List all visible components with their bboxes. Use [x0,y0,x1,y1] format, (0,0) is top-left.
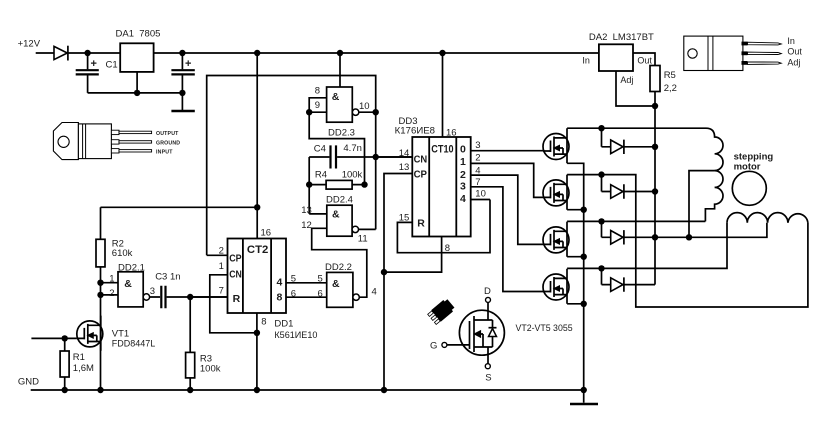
svg-text:DA2 LM317BT: DA2 LM317BT [589,32,654,43]
wire +5V rail from DA1 output to DA2 input [154,52,599,54]
svg-text:4: 4 [277,276,283,288]
svg-text:4.7n: 4.7n [343,143,362,154]
wire DD1 out8 to DD2.2 pin 6 [286,296,327,298]
svg-text:DD2.4: DD2.4 [326,194,353,205]
wire winding 2 center tap to +V bus [655,223,767,238]
wire M3 drain to winding 1 bottom [567,220,705,222]
svg-text:R: R [233,293,241,305]
wire DD1 pin 8 to ground rail [256,313,258,390]
svg-text:2: 2 [475,153,480,164]
svg-text:2,2: 2,2 [664,83,677,94]
wire DD1 R stub [190,296,227,298]
wire DD2.3 output to oscillator node [359,112,376,229]
inverter bubble DD2.2 output [353,294,359,300]
svg-text:&: & [332,278,340,290]
ground symbol at source bus [583,390,585,403]
wire DD3 R to out4 feedback [397,200,490,253]
svg-text:8: 8 [261,316,266,327]
wire DD2.1 pin 1 stub [101,282,119,284]
motor winding 2 [727,213,808,223]
svg-text:R5: R5 [664,70,676,81]
ground symbol at C2 [171,93,194,111]
wire C4 left to R4 left [308,157,310,214]
resistor R1 [60,338,69,390]
transistor VT1 [77,316,103,351]
svg-text:12: 12 [301,220,312,231]
diode VD2 flyback row 1 [602,128,656,154]
DPAK package icon [427,298,456,325]
transistor VT4 driver M3 [543,222,569,257]
wire ground bus C1 to C2 [88,92,183,94]
wire DD1 CN stub to ground [210,275,257,333]
wire source bus M1-M4 to ground [567,163,584,390]
svg-text:13: 13 [301,205,312,216]
svg-text:8: 8 [445,243,450,254]
svg-text:GND: GND [18,377,39,388]
svg-text:&: & [124,278,132,290]
wire DD1 out4 to DD2.2 pin 5 [286,282,327,284]
svg-text:0: 0 [460,144,466,156]
wire DD2.1 pin 2 stub [101,294,119,296]
svg-text:motor: motor [734,161,761,172]
wire winding 1 center tap [689,171,715,238]
wire DD3 CP to ground rail [384,174,412,391]
svg-text:8: 8 [277,291,283,303]
svg-text:CP: CP [414,169,427,181]
svg-text:4: 4 [460,193,466,205]
svg-text:S: S [485,372,491,383]
svg-text:C3 1n: C3 1n [155,272,180,283]
svg-text:К561ИЕ10: К561ИЕ10 [274,330,317,341]
svg-text:OUTPUT: OUTPUT [156,131,179,137]
wire riser rail to DD3 pin 16 [442,53,444,137]
svg-text:13: 13 [399,162,410,173]
svg-text:610k: 610k [112,248,133,259]
logic gate DD2.4 box [327,205,352,236]
diode VD3 flyback row 2 [602,175,656,199]
svg-text:In: In [787,36,795,46]
svg-text:GROUND: GROUND [156,140,180,146]
svg-text:4: 4 [372,287,377,298]
wire riser rail to R2 node and DD1 pin 16 [256,53,258,239]
TO-220 package drawing for DA2 LM317 [684,36,782,70]
wire DD3 CN stub from oscillator node [376,156,413,158]
svg-text:10: 10 [359,101,370,112]
svg-text:8: 8 [315,86,320,97]
resistor R4 [309,180,364,189]
svg-text:&: & [332,91,340,103]
wire DA2 Adj pin to node [616,71,655,106]
svg-text:Adj: Adj [787,57,800,67]
svg-text:C1: C1 [106,60,118,71]
svg-text:1: 1 [460,156,466,168]
wire oscillator feedback top run (DD2.3 out to DD1 CP) [207,76,376,256]
logic gate DD2.1 box [118,272,143,307]
motor winding 1 lower half [705,171,723,222]
svg-text:DA1 7805: DA1 7805 [116,29,161,40]
resistor R2 [96,207,257,390]
logic gate DD2.3 box [327,87,353,122]
svg-text:VT2-VT5 3055: VT2-VT5 3055 [516,323,573,334]
wire DD3 out1 to M2 gate [471,163,543,197]
transistor VT3 driver M2 [543,175,569,210]
wire VT1 gate lead [31,337,76,339]
svg-text:CT2: CT2 [247,244,268,256]
TO-220 package drawing for DA1 [53,123,151,160]
wire M1 drain to winding 1 top [567,127,706,129]
wire diode to C1 node [68,52,88,54]
svg-text:R: R [417,217,425,229]
svg-text:16: 16 [261,228,272,239]
svg-text:К176ИЕ8: К176ИЕ8 [395,126,435,137]
svg-text:1: 1 [109,273,114,284]
capacitor C3 [150,286,228,308]
svg-text:CN: CN [229,269,242,281]
svg-text:DD2.3: DD2.3 [328,127,355,138]
svg-text:INPUT: INPUT [156,149,173,155]
regulator DA1 box [120,43,153,72]
wire +V bus from R5 Adj node [654,106,656,285]
svg-text:DD1: DD1 [274,319,293,330]
wire R5 bottom to Adj node [654,92,656,107]
capacitor C4 [309,145,412,168]
wire DA2 output to R5 [633,53,655,66]
svg-text:1,6M: 1,6M [73,363,94,374]
svg-text:100k: 100k [200,364,221,375]
svg-text:CT10: CT10 [431,143,453,155]
svg-text:6: 6 [318,288,323,299]
wire DA1 ground pin [136,72,138,93]
inverter bubble DD2.1 output [143,294,149,300]
transistor VT2-VT5 equivalent symbol 3055 [442,297,505,368]
wire +12V input to diode [36,52,54,54]
svg-text:CN: CN [414,153,428,165]
svg-text:+12V: +12V [18,39,41,50]
wire DD3 out2 to M3 gate [471,175,543,244]
logic gate DD2.2 box [327,272,353,307]
motor winding 1 upper half [706,128,723,170]
transistor VT2 driver M1 [543,128,569,163]
wire DD3 pin 8 to ground riser [384,237,442,273]
wire DD2.3 pins 8 and 9 tie [309,98,364,185]
diode VD5 flyback row 4 [602,268,656,291]
wire DD2.4 output to oscillator node [359,228,376,230]
motor rotor circle [732,171,766,205]
svg-text:G: G [430,341,437,352]
svg-text:Out: Out [637,55,652,65]
regulator DA2 box [599,44,633,71]
svg-text:R4: R4 [315,170,327,181]
svg-text:11: 11 [358,233,368,244]
wire M4 drain to winding 2 left [567,223,727,269]
labels DA1 package pins OUTPUT GROUND INPUT [156,131,180,155]
svg-text:7: 7 [219,286,224,297]
svg-text:1: 1 [219,261,224,272]
svg-text:2: 2 [109,288,114,299]
wire DD2.4 pin 13 stub [309,213,327,215]
svg-text:10: 10 [475,189,486,200]
capacitor C2 [171,53,194,93]
wire DD3 out0 to M1 gate [471,150,543,152]
counter DD1 CT2 box [228,239,287,314]
labels DA2 package pins In Out Adj [787,36,802,67]
wire DD3 out3 to M4 gate [471,187,543,292]
svg-text:R1: R1 [73,352,85,363]
svg-text:16: 16 [446,128,457,139]
svg-text:DD2.1: DD2.1 [118,262,145,273]
wire DD1 CP stub [207,254,228,256]
svg-text:DD2.2: DD2.2 [325,262,352,273]
wire DD3 out4 stub [471,199,490,201]
svg-text:3: 3 [475,140,480,151]
svg-text:+: + [185,58,191,70]
transistor VT5 driver M4 [543,269,569,304]
wire riser rail to DD2.3 pin 8 top [339,53,341,87]
svg-text:In: In [582,55,590,65]
resistor R3 [186,297,195,390]
diode VD1 input [54,46,68,61]
svg-text:Adj: Adj [620,75,633,85]
svg-text:CP: CP [229,253,241,265]
svg-text:C4: C4 [314,144,326,155]
diode VD4 flyback row 3 [602,221,656,244]
svg-text:+: + [91,58,97,70]
wire M2 drain to winding 2 right [567,175,808,307]
inverter bubble DD2.3 output [352,109,358,115]
counter DD3 CT10 box [412,137,470,237]
svg-text:&: & [332,208,340,220]
resistor R5 [650,66,660,92]
capacitor C1 [76,53,99,93]
svg-text:3: 3 [150,286,155,297]
inverter bubble DD2.4 output [352,226,358,232]
wire C1 node to DA1 input [88,52,121,54]
wire DD2.4 pin 12 to DD2.2 output [312,228,367,297]
svg-text:100k: 100k [342,170,363,181]
svg-text:9: 9 [315,100,320,111]
svg-text:2: 2 [460,169,466,181]
wire ground rail [31,389,584,391]
svg-text:5: 5 [318,274,323,285]
svg-text:Out: Out [787,46,802,56]
svg-text:D: D [484,286,491,297]
svg-text:FDD8447L: FDD8447L [112,339,155,350]
svg-text:3: 3 [460,181,466,193]
